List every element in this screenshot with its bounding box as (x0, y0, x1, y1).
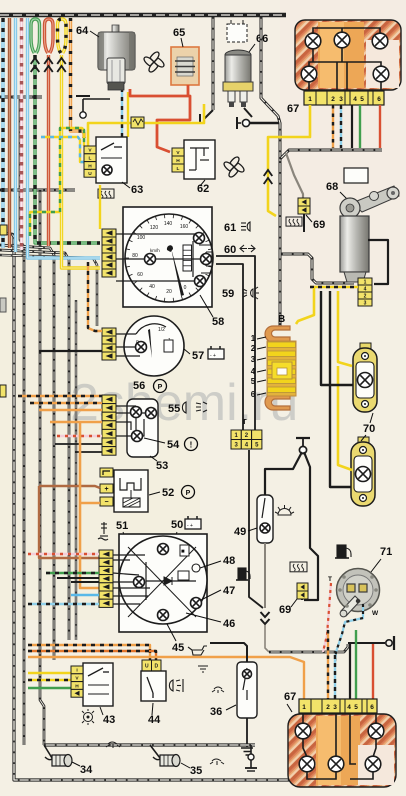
wire yellow to resistor (88, 123, 131, 146)
svg-text:6: 6 (377, 96, 381, 103)
label box 68 (344, 168, 368, 183)
fuel pump icon 71 (335, 545, 351, 558)
thermometer icon (98, 522, 108, 540)
wire pink b (57, 435, 102, 437)
wire black pin4 (349, 644, 351, 699)
svg-text:km/h: km/h (150, 248, 160, 253)
wire green 43 (28, 687, 71, 689)
heater grid icon b (290, 562, 307, 572)
lamp cluster 53 (116, 399, 158, 457)
svg-text:г: г (243, 416, 247, 426)
wire black to G b (216, 264, 243, 430)
svg-text:56: 56 (133, 380, 145, 392)
svg-text:20: 20 (166, 289, 172, 295)
svg-text:P: P (186, 490, 191, 497)
resistor unit 65 (171, 47, 199, 85)
ground post left of motor (76, 96, 110, 118)
svg-text:67: 67 (287, 103, 299, 115)
svg-text:71: 71 (380, 546, 392, 558)
wire yellow loop (58, 19, 67, 53)
svg-text:54: 54 (167, 439, 180, 451)
wire pink sender T (323, 583, 331, 652)
svg-text:62: 62 (197, 183, 209, 195)
svg-text:W: W (372, 610, 379, 617)
svg-text:69: 69 (313, 219, 325, 231)
svg-text:0: 0 (184, 285, 187, 291)
wire black a (57, 577, 99, 579)
svg-text:3: 3 (364, 300, 367, 306)
wire yellow pin1 (268, 105, 310, 216)
svg-text:34: 34 (80, 764, 93, 776)
svg-text:1: 1 (251, 334, 256, 343)
wire yellow to speedo (62, 55, 101, 268)
relay 63 (96, 137, 127, 183)
fan symbol near 62 (224, 157, 244, 177)
bus under cluster (280, 150, 382, 159)
harness horizontal y97 (0, 96, 42, 99)
wire red pin6 (372, 644, 374, 699)
ground pole bottom (245, 745, 257, 771)
svg-text:53: 53 (156, 460, 168, 472)
wire orange b (39, 409, 102, 411)
wire green loop (31, 19, 40, 53)
svg-text:L: L (177, 166, 180, 172)
wire blue-black from motor (121, 88, 123, 137)
switch 44 (142, 660, 161, 671)
wire black 57 (39, 350, 102, 352)
svg-text:3: 3 (251, 355, 256, 364)
oil can icon 45 (188, 646, 207, 655)
wire black a (320, 291, 322, 330)
wire black below 69a (303, 214, 305, 232)
svg-text:H: H (88, 163, 92, 169)
wire yellow from resistor (144, 104, 204, 123)
svg-text:63: 63 (131, 184, 143, 196)
connector 69b (297, 583, 308, 599)
wire black post to 69b (304, 452, 318, 600)
wire green pin5 (359, 105, 361, 148)
relay 52 (114, 470, 148, 512)
ground symbol 36 (241, 748, 253, 755)
icon rays 34 (106, 742, 120, 748)
svg-text:61: 61 (224, 222, 236, 234)
combination gauge 45-48 (113, 534, 207, 632)
svg-text:3: 3 (333, 704, 337, 711)
svg-text:−: − (104, 499, 108, 506)
harness vertical x261 (261, 17, 280, 328)
svg-text:T: T (328, 576, 332, 583)
svg-text:!: ! (190, 441, 193, 450)
wire orange-black pin2 (327, 630, 329, 699)
wire yellow motor to relay63 (127, 92, 129, 137)
svg-text:36: 36 (210, 706, 222, 718)
wire yellow-black 43 (28, 679, 71, 681)
wire black post to switch49 (265, 452, 302, 495)
svg-text:1: 1 (308, 96, 312, 103)
wire lightblue pin3 (340, 105, 342, 148)
bottom inner bus (44, 743, 255, 746)
wire lightblue to speedo (28, 18, 101, 258)
wire orange-black 44a (28, 645, 150, 660)
svg-text:64: 64 (76, 25, 89, 37)
sun icon (275, 505, 294, 515)
junction line with terminal (348, 636, 394, 650)
svg-text:1: 1 (302, 704, 306, 711)
svg-text:60: 60 (137, 272, 143, 278)
fuel pump icon 48 (236, 568, 250, 580)
wire lightblue pin3 (334, 655, 336, 699)
svg-text:4: 4 (353, 96, 357, 103)
wire black below G (249, 450, 263, 608)
harness vertical x24 (20, 99, 24, 745)
svg-text:47: 47 (223, 585, 235, 597)
wire yellow-green L (30, 128, 84, 236)
svg-text:65: 65 (173, 27, 185, 39)
wire green dash (46, 572, 99, 574)
icon arrows (240, 245, 255, 252)
wire red loop (45, 19, 54, 53)
svg-text:2: 2 (251, 344, 256, 353)
svg-text:52: 52 (162, 487, 174, 499)
fuel gauge 57 (116, 316, 184, 376)
battery icon 57 (208, 346, 224, 359)
wire orange long to cluster (28, 657, 304, 699)
icon rays 35 (210, 759, 224, 765)
svg-text:H: H (75, 683, 79, 689)
wire red from 65 (187, 85, 190, 96)
wire yellow-blue (41, 137, 84, 162)
svg-text:68: 68 (326, 181, 338, 193)
svg-text:69: 69 (279, 604, 291, 616)
svg-text:35: 35 (190, 765, 202, 777)
harness vertical x97 short (0, 255, 97, 326)
wire orange to gauge (80, 502, 99, 588)
wire red down (47, 55, 50, 246)
lamp socket 34 (44, 745, 52, 758)
tail lamp cluster 67 top (295, 20, 401, 91)
wire yellow 43 (28, 672, 71, 674)
wire orange-black pin2 (332, 105, 334, 148)
svg-text:45: 45 (172, 642, 184, 654)
svg-text:50: 50 (171, 519, 183, 531)
wire orange 57 (88, 262, 102, 331)
svg-text:55: 55 (168, 403, 180, 415)
wire black lamp70b (330, 334, 351, 487)
svg-text:160: 160 (180, 224, 189, 230)
left edge partial components (0, 225, 7, 235)
svg-text:2: 2 (331, 96, 335, 103)
resistor on yellow wire (131, 117, 144, 128)
wire black 69b stub (301, 599, 303, 600)
svg-text:67: 67 (284, 691, 296, 703)
svg-text:59: 59 (222, 288, 234, 300)
wire blue sender W (335, 604, 363, 662)
wire black b (71, 581, 99, 583)
switch 43 (83, 663, 113, 706)
wire 36 to ground (246, 718, 248, 747)
wire yellow lamp70b (338, 366, 352, 470)
wire black 53b (75, 451, 102, 453)
wire green down (35, 55, 100, 243)
svg-text:80: 80 (132, 253, 138, 259)
svg-text:3: 3 (339, 96, 343, 103)
wire pink (28, 553, 99, 555)
harness branch to wiper connector (281, 254, 354, 283)
switch 49 (257, 495, 273, 543)
svg-text:70: 70 (363, 423, 375, 435)
harness vertical x40 (40, 190, 44, 745)
lamp socket 35 (150, 745, 160, 758)
svg-text:L: L (89, 156, 92, 162)
svg-text:4: 4 (251, 367, 256, 376)
side lamp 70 upper (353, 343, 377, 412)
svg-text:1/2: 1/2 (158, 327, 165, 333)
svg-text:5: 5 (360, 96, 364, 103)
wire orange vertical (79, 422, 82, 502)
washer pump 66 (223, 50, 253, 107)
svg-text:51: 51 (116, 520, 128, 532)
svg-text:2: 2 (326, 704, 330, 711)
wire black b (329, 291, 331, 334)
svg-text:49: 49 (234, 526, 246, 538)
wire blue (71, 594, 99, 596)
svg-text:58: 58 (212, 316, 224, 328)
wire orange a (30, 402, 102, 404)
svg-text:В: В (278, 314, 285, 325)
harness vertical x76 (75, 300, 77, 640)
wire black lamp70a (321, 330, 353, 385)
svg-text:60: 60 (224, 244, 236, 256)
wire gray below 49 (264, 543, 266, 608)
wire yellow-black (310, 286, 358, 289)
wire into 36 (210, 643, 247, 662)
wire gray (286, 153, 303, 200)
wire black wiper (368, 240, 388, 284)
wire red motor-65 to relay62 (130, 89, 190, 152)
svg-text:U: U (88, 171, 92, 177)
loop arrows (31, 58, 40, 72)
svg-text:- +: - + (187, 523, 193, 529)
wire brown (39, 486, 100, 488)
wiper connector (358, 278, 372, 306)
svg-text:43: 43 (103, 714, 115, 726)
harness vertical x54 (0, 245, 54, 660)
wire black pin4 (351, 105, 353, 148)
wire brown (8, 18, 11, 248)
wire yellow into speedo conn (99, 185, 101, 229)
wire gray below arrows (265, 625, 269, 652)
wire pink-red (20, 18, 23, 250)
harness vertical x69 (0, 250, 69, 640)
svg-text:H: H (176, 158, 180, 164)
wire brown down (39, 486, 99, 558)
wire yellow to fuse (296, 288, 314, 324)
wire lightblue (14, 18, 17, 252)
left frame border (14, 233, 358, 780)
wiper motor 68 (340, 186, 399, 282)
svg-text:57: 57 (192, 350, 204, 362)
reservoir dashed box (227, 24, 247, 42)
icons near 36 (198, 666, 224, 693)
wire yellow lamp70a (338, 330, 352, 366)
wire red pin6 (379, 105, 381, 148)
junction post near 66 (237, 108, 280, 129)
wire orange 44b (28, 651, 156, 660)
wire black to G a (216, 256, 255, 430)
top harness bar (0, 13, 286, 18)
wire orange stub 52 (80, 502, 100, 505)
wire orange-black (71, 18, 85, 138)
svg-text:6: 6 (251, 390, 256, 399)
wire lightblue dash (28, 603, 99, 605)
speedo connector strip (102, 229, 116, 277)
svg-text:■: ■ (181, 549, 185, 555)
svg-text:5: 5 (251, 377, 256, 386)
battery icon 50 (185, 516, 201, 529)
svg-text:48: 48 (223, 555, 235, 567)
connector strip top cluster (304, 91, 384, 105)
harness to rear junction (269, 644, 348, 652)
svg-text:5: 5 (354, 704, 358, 711)
svg-text:40: 40 (149, 284, 155, 290)
wire orange c (50, 421, 102, 423)
fan symbol (144, 52, 164, 72)
connector 69a (298, 198, 310, 214)
svg-text:- +: - + (210, 353, 216, 359)
icon headlight (241, 222, 250, 231)
wire orange a0 (18, 395, 102, 397)
svg-text:140: 140 (164, 221, 173, 227)
junction post 70 (296, 438, 310, 454)
wire black 53a (55, 443, 102, 445)
wire yellow down (337, 291, 340, 330)
svg-text:44: 44 (148, 714, 161, 726)
fog icon 44 (169, 679, 183, 692)
harness vertical x213 (212, 17, 215, 110)
svg-text:D: D (154, 663, 158, 669)
svg-text:100: 100 (137, 235, 146, 241)
svg-text:U: U (145, 663, 149, 669)
wire lightblue-black (1, 18, 4, 248)
side lamp 70 lower (351, 437, 375, 506)
svg-text:P: P (158, 384, 163, 391)
relay 62 (184, 140, 215, 179)
motor M64 (98, 25, 135, 90)
icon 59 (243, 287, 259, 299)
fuel sender 71 (337, 569, 380, 617)
harness corner stub left edge (0, 233, 16, 240)
speedometer unit 58 (116, 207, 213, 307)
svg-text:120: 120 (150, 225, 159, 231)
heater grid icon a (286, 217, 302, 226)
harness bus y190 (0, 189, 75, 192)
svg-text:+: + (104, 486, 108, 493)
svg-text:4: 4 (347, 704, 351, 711)
switch 36 (237, 662, 257, 718)
lamp icon 43 (82, 709, 94, 725)
svg-text:46: 46 (223, 618, 235, 630)
svg-text:6: 6 (370, 704, 374, 711)
wire green pin5 (355, 630, 357, 699)
